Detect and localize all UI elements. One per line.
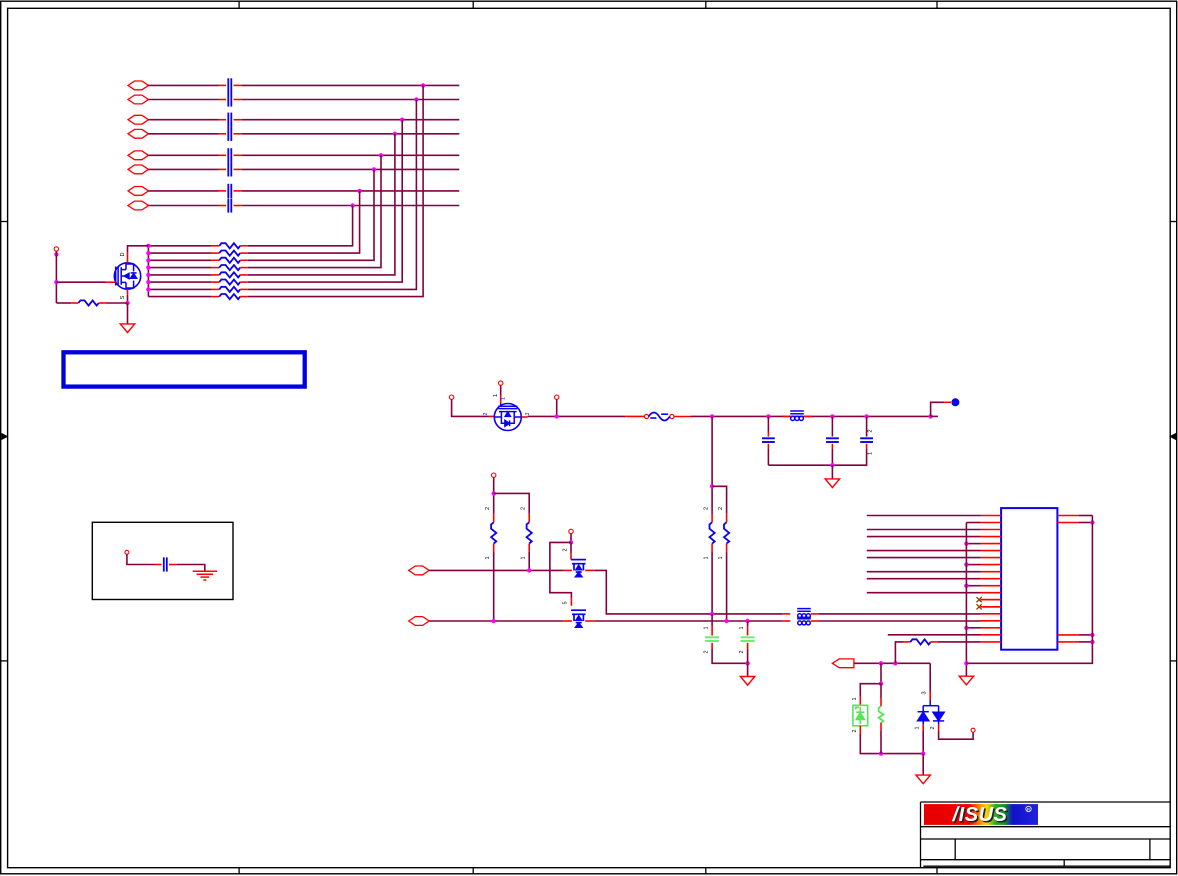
svg-text:/ISUS: /ISUS — [952, 804, 1008, 826]
mosfet Q2 source lead — [522, 416, 528, 418]
resistor R8 — [219, 294, 240, 299]
junction rail bottom — [964, 661, 968, 665]
wire net to CN1 pin 18 — [888, 634, 981, 636]
svg-text:1: 1 — [493, 394, 499, 397]
wire net to CN1 pin 10 — [867, 578, 981, 580]
wire CN1 pin 8 to ground rail — [966, 564, 980, 566]
LED1 green — [853, 705, 868, 726]
right shield rail — [966, 516, 1092, 664]
connector CN1 pin 4 lead — [981, 536, 1002, 538]
junction bottom rail diode — [921, 751, 925, 755]
mosfet Q2 drain lead — [489, 415, 494, 417]
port P2 — [128, 95, 149, 104]
svg-text:2: 2 — [718, 507, 724, 510]
note frame box — [92, 522, 233, 599]
ground at Q1 source — [120, 324, 134, 333]
wire split to LED1 — [860, 684, 881, 696]
resistor R14 — [910, 639, 930, 644]
border centre arrow left — [1, 433, 8, 440]
wire crossover row 2 to resistor row 7 — [248, 100, 417, 290]
mosfet Q2 gate pin — [500, 396, 502, 404]
junction pullup split — [492, 491, 496, 495]
resistor R6 — [219, 280, 240, 285]
wire bottom rail to ground — [922, 754, 924, 776]
connector CN1 pin 2 lead — [981, 522, 1002, 524]
connector CN1 pin 19 lead — [981, 641, 1002, 643]
no-connect x pin 13 — [982, 599, 1002, 601]
wire D1 pin2 to node — [939, 731, 974, 739]
connector CN1 pin 13 lead — [981, 599, 1002, 601]
capacitor C8 — [228, 198, 231, 212]
wire R14 to CN1 pin 19 — [938, 641, 981, 643]
junction cap bottom rail — [830, 463, 834, 467]
diode D1 pin2 lead — [938, 725, 940, 731]
svg-text:5: 5 — [563, 601, 569, 604]
junction bus row 3 — [146, 258, 150, 262]
CN1 right pin 18 lead — [1057, 634, 1078, 636]
wire port to dual diode — [929, 663, 931, 691]
ground green caps — [740, 677, 754, 686]
wire crossover row 3 to resistor row 6 — [248, 120, 403, 282]
wire Q1 source to ground — [127, 303, 129, 324]
wire bus to resistor R1 — [148, 245, 211, 247]
junction rail pin 5 — [964, 541, 968, 545]
svg-text:S: S — [120, 295, 126, 299]
wire R13 bottom to lower pair line — [726, 552, 728, 621]
junction rail pin 11 — [964, 584, 968, 588]
wire up to series resistor R14 — [895, 642, 903, 663]
mosfet Q1 drain pin — [127, 253, 129, 263]
wire CN1 right pin18 to right rail — [1079, 634, 1093, 636]
junction R11 on DM line — [492, 619, 496, 623]
LED1 pin2 lead — [859, 726, 861, 734]
wire capacitor C4 output — [242, 133, 460, 135]
wire net to CN1 pin 4 — [867, 536, 981, 538]
junction node row 3 — [400, 118, 404, 122]
wire port P8 to capacitor C8 — [149, 205, 219, 207]
junction rail pin 17 — [964, 626, 968, 630]
connector CN1 pin 9 lead — [981, 571, 1002, 573]
wire net to CN1 pin 12 — [867, 592, 981, 594]
wire capacitor C8 output — [242, 205, 460, 207]
ground rail vertical — [965, 523, 967, 677]
wire fuse F1 output — [674, 416, 691, 418]
svg-text:1: 1 — [485, 556, 491, 559]
wire node B stub — [556, 400, 558, 417]
svg-text:3: 3 — [525, 412, 531, 415]
capacitor C1 — [228, 78, 231, 92]
svg-text:1: 1 — [704, 626, 710, 629]
junction bus row 1 — [146, 244, 150, 248]
junction node row 6 — [372, 167, 376, 171]
mosfet Q4 gate pin — [570, 598, 572, 605]
capacitor C9 — [164, 557, 167, 571]
mosfet Q3 gate pin — [570, 542, 572, 553]
wire C14 bottom — [747, 649, 749, 663]
svg-text:2: 2 — [485, 507, 491, 510]
resistor R9 — [78, 300, 98, 305]
svg-text:2: 2 — [739, 650, 745, 653]
junction rail at R10 — [710, 414, 714, 418]
svg-text:2: 2 — [521, 507, 527, 510]
wire choke to connector pin16 — [818, 620, 980, 622]
svg-text:1: 1 — [915, 726, 921, 729]
junction resistor branch — [893, 661, 897, 665]
svg-text:D: D — [120, 252, 126, 256]
junction R12 on DP line — [527, 568, 531, 572]
junction below node — [54, 252, 58, 256]
resistor R12 — [528, 514, 530, 522]
ground mid rail — [825, 479, 839, 488]
wire bus to resistor R8 — [148, 296, 211, 298]
ground rail ground symbol — [959, 676, 973, 685]
wire CN1 pin 5 to ground rail — [966, 543, 980, 545]
wire C11 bottom — [831, 449, 833, 465]
capacitor C6 — [228, 162, 231, 176]
wire to fuse F1 — [625, 415, 644, 417]
wire port P4 to capacitor C4 — [149, 133, 219, 135]
wire crossover row 5 to resistor row 4 — [248, 155, 381, 267]
node pullup mid — [492, 473, 496, 477]
port VBUS out — [832, 659, 854, 668]
connector CN1 pin 18 lead — [981, 634, 1002, 636]
port P8 — [128, 201, 149, 210]
node VCC top-left — [54, 247, 58, 251]
wire Q2 to node B — [528, 415, 626, 417]
CN1 right pin 1 lead — [1057, 515, 1078, 517]
svg-text:1: 1 — [852, 697, 858, 700]
svg-text:1: 1 — [704, 556, 710, 559]
capacitor C5 — [228, 148, 231, 162]
wire C13 bottom link — [712, 649, 748, 663]
wire rail up to ball node — [931, 402, 945, 416]
capacitor C14 green — [741, 637, 755, 641]
wire port P6 to capacitor C6 — [149, 168, 219, 170]
wire capacitor C5 output — [242, 154, 460, 156]
resistor R7 — [219, 287, 240, 292]
svg-text:1: 1 — [739, 626, 745, 629]
svg-text:1: 1 — [868, 452, 874, 455]
wire split to R15 — [880, 684, 882, 698]
wire port line — [854, 662, 930, 664]
resistor R10 — [711, 514, 713, 522]
junction rail pin 8 — [964, 562, 968, 566]
junction node row 8 — [350, 203, 354, 207]
junction bus row 6 — [146, 280, 150, 284]
junction rail at C10 — [766, 414, 770, 418]
junction green cap link — [745, 661, 749, 665]
svg-text:2: 2 — [852, 729, 858, 732]
wire choke to connector pin15 — [818, 613, 980, 615]
diode D1 pin1 lead — [922, 725, 924, 731]
junction right rail pin19 — [1090, 640, 1094, 644]
wire LED branch down — [880, 663, 882, 683]
wire port P1 to capacitor C1 — [149, 84, 219, 86]
resistor R2 — [219, 251, 240, 256]
wire CN1 pin 11 to ground rail — [966, 585, 980, 587]
svg-text:2: 2 — [704, 650, 710, 653]
junction rail at C12 — [864, 414, 868, 418]
mosfet Q1 — [114, 263, 140, 289]
mosfet Q4 drain lead — [585, 620, 595, 622]
connector CN1 pin 15 lead — [981, 613, 1002, 615]
capacitor C3 — [228, 113, 231, 127]
wire VIN down to rail — [452, 400, 489, 417]
wire split to R12 top — [494, 493, 530, 514]
wire C11 top stub — [831, 416, 833, 436]
wire D1 pin1 to bottom rail — [922, 731, 924, 754]
connector CN1 pin 6 lead — [981, 550, 1002, 552]
junction LED split — [879, 682, 883, 686]
node diode clamp — [971, 728, 975, 732]
svg-text:2: 2 — [704, 507, 710, 510]
junction bus row 7 — [146, 287, 150, 291]
wire capacitor C7 output — [242, 190, 460, 192]
junction R10 upper pair — [710, 612, 714, 616]
connector CN1 pin 1 lead — [981, 515, 1002, 517]
wire C12 top stub — [866, 416, 868, 436]
wire port DP line — [429, 569, 564, 571]
wire port P2 to capacitor C2 — [149, 99, 219, 101]
connector CN1 pin 11 lead — [981, 585, 1002, 587]
wire C12 bottom — [768, 449, 866, 465]
connector CN1 pin 16 lead — [981, 620, 1002, 622]
svg-text:1: 1 — [521, 556, 527, 559]
resistor R3 — [219, 258, 240, 263]
mosfet Q1 source pin — [127, 289, 129, 295]
port DM — [409, 617, 430, 626]
common-mode choke L2 — [783, 613, 791, 615]
port P5 — [128, 151, 149, 160]
wire R10 bottom to upper pair line — [711, 552, 713, 614]
fuse F1 — [644, 414, 648, 418]
connector CN1 body — [1001, 508, 1057, 650]
junction gate branch — [54, 280, 58, 284]
connector CN1 pin 10 lead — [981, 578, 1002, 580]
wire to ground mid — [831, 465, 833, 479]
wire crossover row 1 to resistor row 8 — [248, 85, 423, 296]
mosfet Q3 — [571, 560, 586, 577]
wire R15 to bottom rail — [880, 731, 882, 754]
port P4 — [128, 129, 149, 138]
ground bottom right — [916, 775, 930, 784]
connector CN1 pin 12 lead — [981, 592, 1002, 594]
junction R13 lower pair — [724, 619, 728, 623]
connector CN1 pin 5 lead — [981, 543, 1002, 545]
capacitor C11 — [826, 438, 839, 442]
junction node row 7 — [357, 189, 361, 193]
wire port P7 to capacitor C7 — [149, 190, 219, 192]
junction node B — [555, 414, 559, 418]
junction right rail pin2 — [1090, 520, 1094, 524]
capacitor C2 — [228, 92, 231, 106]
wire CN1 right pin1 to right rail — [1079, 515, 1093, 517]
svg-text:2: 2 — [868, 429, 874, 432]
svg-text:3: 3 — [922, 691, 928, 694]
resistor R5 — [219, 272, 240, 277]
resistor R11 — [493, 514, 495, 522]
svg-text:2: 2 — [563, 548, 569, 551]
wire net to CN1 pin 7 — [867, 557, 981, 559]
svg-text:1: 1 — [718, 556, 724, 559]
mosfet Q3 source lead — [564, 569, 572, 571]
title block frame — [921, 802, 1171, 868]
wire bus to resistor R6 — [148, 281, 211, 283]
svg-text:2: 2 — [930, 726, 936, 729]
CN1 right pin 2 lead — [1057, 522, 1078, 524]
wire rail to R10 — [711, 416, 713, 514]
resistor R15 green — [880, 698, 882, 706]
wire CN1 pin 2 to ground rail — [966, 522, 980, 524]
wire crossover row 7 to resistor row 2 — [248, 191, 360, 253]
wire to Q1 gate — [56, 281, 106, 283]
junction C14 top — [745, 619, 749, 623]
wire Q3 drain to lower pair — [595, 570, 783, 614]
mosfet Q4 — [571, 610, 586, 627]
junction node row 5 — [379, 153, 383, 157]
junction R10 split — [710, 484, 714, 488]
svg-text:1: 1 — [501, 397, 507, 400]
wire R12 bottom to upper line — [528, 552, 530, 571]
port P3 — [128, 115, 149, 124]
CN1 right pin 19 lead — [1057, 641, 1078, 643]
wire C10 top stub — [767, 416, 769, 431]
wire node down — [493, 478, 495, 514]
capacitor C13 green — [705, 637, 719, 641]
node in frame — [125, 550, 129, 554]
junction node row 2 — [414, 97, 418, 101]
wire R11 bottom to lower line — [493, 552, 495, 621]
wire gate to Q4 gate — [550, 542, 572, 598]
wire bus to resistor R5 — [148, 274, 211, 276]
wire rail stub right — [931, 415, 938, 417]
wire capacitor C2 output — [242, 99, 460, 101]
node gate clamp — [569, 529, 573, 533]
mosfet Q4 source lead — [564, 620, 572, 622]
junction LED branch — [879, 661, 883, 665]
no-connect x pin 14 — [982, 606, 1002, 608]
wire Q1 source down — [127, 295, 129, 303]
connector CN1 pin 17 lead — [981, 627, 1002, 629]
port P7 — [128, 187, 149, 196]
connector CN1 pin 14 lead — [981, 606, 1002, 608]
port P6 — [128, 165, 149, 174]
resistor R13 — [726, 514, 728, 522]
capacitor C7 — [228, 184, 231, 198]
wire R9 to Q1 source — [106, 302, 128, 304]
wire gate node down — [500, 385, 502, 395]
junction bus row 5 — [146, 273, 150, 277]
capacitor C12 — [860, 438, 873, 442]
wire crossover row 8 to resistor row 1 — [248, 206, 353, 246]
junction rail right branch — [928, 414, 932, 418]
wire port P5 to capacitor C5 — [149, 154, 219, 156]
junction node row 4 — [393, 132, 397, 136]
resistor R1 — [219, 243, 240, 248]
wire node down — [55, 251, 57, 303]
mosfet Q3 drain lead — [585, 569, 595, 571]
wire LED1 to bottom rail — [860, 734, 923, 754]
junction node row 1 — [421, 83, 425, 87]
wire capacitor C1 output — [242, 84, 460, 86]
node gate Q2 — [499, 381, 503, 385]
connector CN1 pin 3 lead — [981, 529, 1002, 531]
blue annotation box — [64, 352, 305, 386]
port P1 — [128, 81, 149, 90]
junction bottom rail R15 — [879, 751, 883, 755]
connector CN1 pin 8 lead — [981, 564, 1002, 566]
wire node to capacitor C9 — [127, 554, 155, 564]
wire net to CN1 pin 3 — [867, 529, 981, 531]
wire crossover row 6 to resistor row 3 — [248, 169, 374, 260]
node VIN middle — [449, 395, 453, 399]
wire crossover row 4 to resistor row 5 — [248, 134, 395, 275]
wire CN1 right pin2 to right rail — [1079, 522, 1093, 524]
junction rail at C11 — [830, 414, 834, 418]
wire C14 top stub — [747, 621, 749, 626]
wire bus to resistor R4 — [148, 267, 211, 269]
node B — [555, 395, 559, 399]
wire bus to resistor R3 — [148, 259, 211, 261]
wire node to resistor R9 — [56, 302, 71, 304]
capacitor C4 — [228, 127, 231, 141]
ball node VOUT — [951, 398, 959, 406]
dual diode D1 common pin — [929, 692, 931, 701]
wire net to CN1 pin 6 — [867, 550, 981, 552]
wire net to CN1 pin 9 — [867, 571, 981, 573]
wire port P3 to capacitor C3 — [149, 119, 219, 121]
LED1 pin1 lead — [859, 696, 861, 705]
junction bus row 4 — [146, 265, 150, 269]
inductor L1 — [783, 415, 791, 417]
capacitor C10 — [762, 438, 775, 442]
dual diode D1 — [918, 706, 945, 725]
wire gate node down — [570, 534, 572, 543]
junction Q1 source — [125, 301, 129, 305]
mosfet Q2 — [494, 404, 521, 431]
junction bus row 2 — [146, 251, 150, 255]
wire bus to resistor R2 — [148, 252, 211, 254]
wire to ground green caps — [747, 663, 749, 676]
wire capacitor C6 output — [242, 168, 460, 170]
junction gate split — [569, 540, 573, 544]
vertical bus node at Q1 drain — [147, 246, 149, 297]
border centre arrow right — [1169, 433, 1176, 440]
wire net to CN1 pin 1 — [867, 515, 981, 517]
wire split to R13 top — [712, 486, 727, 514]
wire Q1 drain to bus — [128, 246, 149, 253]
earth ground in frame — [193, 571, 217, 580]
junction right rail pin18 — [1090, 633, 1094, 637]
wire C10 bottom — [767, 449, 769, 465]
wire port DM line — [429, 620, 564, 622]
wire CN1 right pin19 to right rail — [1079, 641, 1093, 643]
port DP — [409, 566, 430, 575]
wire R10 node to cap C13 — [711, 614, 713, 626]
connector CN1 pin 7 lead — [981, 557, 1002, 559]
wire Q4 drain to choke — [595, 620, 783, 622]
wire CN1 pin 17 to ground rail — [966, 627, 980, 629]
wire capacitor C3 output — [242, 119, 460, 121]
wire capacitor C9 to earth — [177, 565, 205, 572]
resistor R4 — [219, 265, 240, 270]
svg-text:2: 2 — [483, 412, 489, 415]
wire bus to resistor R7 — [148, 288, 211, 290]
